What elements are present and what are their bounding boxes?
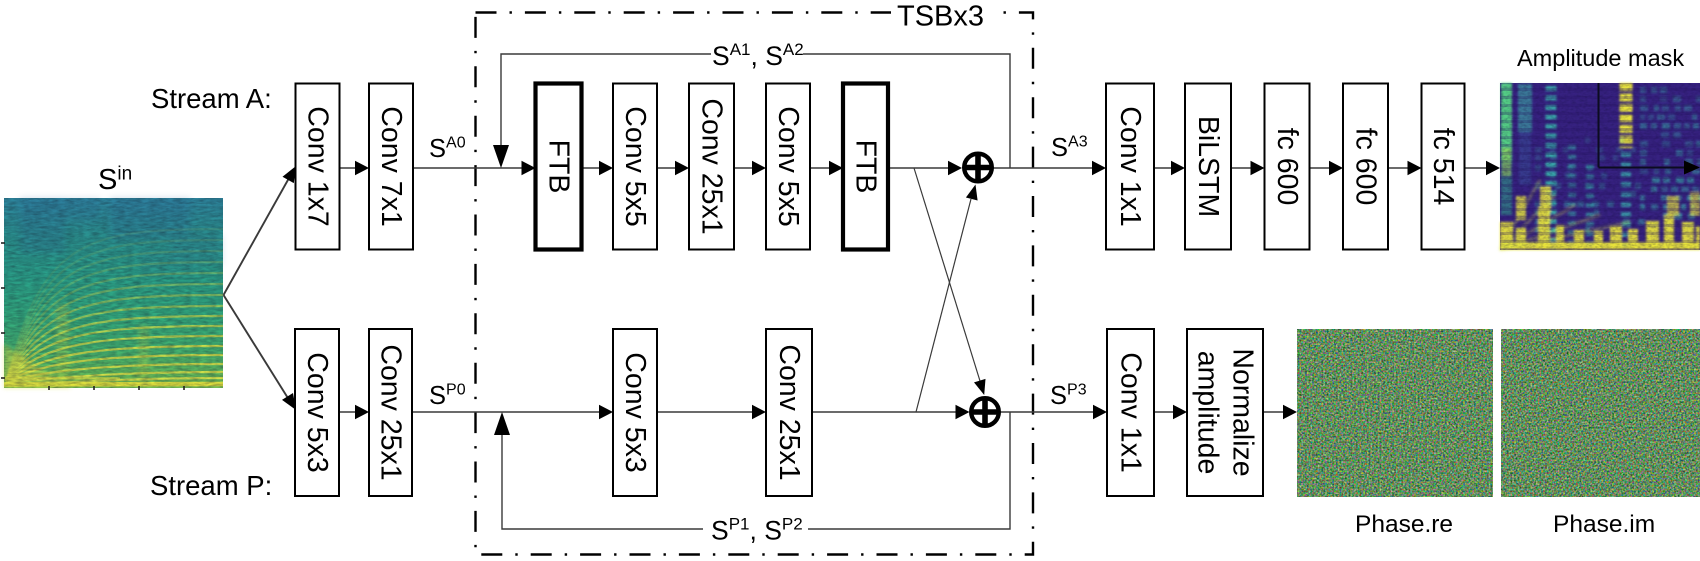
wire FTB2 to adder A [888, 161, 962, 175]
svg-text:Conv 25x1: Conv 25x1 [696, 98, 728, 234]
block FTB [536, 84, 582, 250]
wire Normalize amplitude to Phase.re [1263, 405, 1297, 419]
wire cross-stream P to adder A [916, 185, 978, 413]
svg-text:Sin: Sin [98, 164, 132, 197]
svg-text:Conv 7x1: Conv 7x1 [375, 106, 407, 226]
wire feedback loop S^A1,S^A2 right segment [803, 54, 1010, 168]
svg-text:Conv 1x1: Conv 1x1 [1115, 352, 1147, 472]
block Conv 1x7 [296, 84, 340, 250]
wire adder P to Conv1x1 (S^P3) [1001, 405, 1108, 419]
block FTB [843, 84, 888, 250]
svg-text:Amplitude mask: Amplitude mask [1517, 45, 1684, 71]
svg-text:FTB: FTB [850, 140, 882, 194]
svg-text:BiLSTM: BiLSTM [1192, 116, 1224, 217]
svg-text:SP0: SP0 [429, 382, 466, 411]
wire feedback loop S^A1,S^A2 left segment with down arrow [493, 54, 711, 168]
svg-text:Phase.im: Phase.im [1553, 511, 1655, 538]
wire cross-stream A to adder P [914, 168, 986, 395]
wire fc600 to fc600 [1310, 161, 1344, 175]
block Conv 5x5 [766, 84, 810, 250]
svg-text:Stream P:: Stream P: [150, 470, 272, 501]
TSB dash-dot frame [476, 13, 1034, 555]
wire Conv25x1 to TSB Conv5x3 (S^P0) [412, 405, 613, 419]
svg-text:Conv 25x1: Conv 25x1 [375, 344, 407, 480]
block Normalize amplitude [1187, 329, 1263, 496]
block Conv 1x1 [1107, 329, 1154, 496]
svg-text:Phase.re: Phase.re [1355, 511, 1453, 538]
Phase.re image [1297, 329, 1493, 497]
S^in axis ticks [1, 243, 184, 390]
Phase.im image [1501, 329, 1700, 497]
block Conv 7x1 [369, 84, 413, 250]
wire Conv1x7 to Conv7x1 [340, 161, 370, 175]
block Conv 25x1 [689, 84, 734, 250]
wire Conv5x5 to FTB2 [810, 161, 843, 175]
svg-text:SA1, SA2: SA1, SA2 [712, 40, 804, 71]
input spectrogram S^in [1, 198, 223, 390]
wire fc600 to fc514 [1388, 161, 1422, 175]
block Conv 1x1 [1106, 84, 1154, 250]
circle-plus adder stream P [971, 398, 999, 426]
svg-text:Conv 1x1: Conv 1x1 [1114, 106, 1146, 226]
wire Conv7x1 to FTB1 (S^A0) [413, 161, 536, 175]
svg-text:Conv 5x3: Conv 5x3 [301, 352, 333, 472]
wire fc514 to amplitude mask [1465, 161, 1501, 175]
block Conv 5x3 [295, 329, 339, 496]
wire feedback loop S^P1,S^P2 right segment [808, 412, 1010, 529]
wire Conv1x1 to Normalize amplitude [1154, 405, 1187, 419]
wire feedback loop S^P1,S^P2 left segment with up arrow [494, 412, 703, 529]
arrow on mask inset [1684, 161, 1700, 175]
svg-text:SA3: SA3 [1051, 134, 1088, 163]
svg-text:fc 600: fc 600 [1350, 128, 1382, 206]
wire FTB1 to Conv5x5 [582, 161, 614, 175]
wire TSB Conv5x3 to TSB Conv25x1 [657, 405, 766, 419]
svg-text:SP3: SP3 [1050, 382, 1087, 411]
wire Conv5x5 to Conv25x1 [657, 161, 689, 175]
svg-text:Conv 5x5: Conv 5x5 [619, 106, 651, 226]
block BiLSTM [1185, 84, 1231, 250]
TSBx3 label [891, 0, 991, 27]
block fc 514 [1422, 84, 1465, 250]
wire Conv5x3 to Conv25x1 [339, 405, 369, 419]
svg-text:Conv 5x5: Conv 5x5 [772, 106, 804, 226]
svg-text:Stream A:: Stream A: [151, 83, 272, 114]
svg-text:Conv 5x3: Conv 5x3 [619, 352, 651, 472]
svg-text:Conv 1x7: Conv 1x7 [302, 106, 334, 226]
wire fan from S^in to Conv 5x3 (stream P) [224, 295, 297, 410]
svg-text:FTB: FTB [543, 140, 575, 194]
svg-text:fc 600: fc 600 [1271, 128, 1303, 206]
svg-text:fc 514: fc 514 [1427, 128, 1459, 206]
amplitude mask image [1500, 83, 1700, 250]
svg-text:TSBx3: TSBx3 [897, 1, 984, 33]
wire adder A to Conv1x1 (S^A3) [994, 161, 1107, 175]
wire Conv1x1 to BiLSTM [1154, 161, 1185, 175]
block Conv 25x1 [766, 329, 812, 496]
wire Conv25x1 to Conv5x5 [734, 161, 766, 175]
svg-text:SA0: SA0 [429, 135, 466, 164]
wire BiLSTM to fc600 [1231, 161, 1265, 175]
block Conv 5x5 [613, 84, 657, 250]
block fc 600 [1343, 84, 1388, 250]
circle-plus adder stream A [964, 154, 992, 182]
block fc 600 [1265, 84, 1310, 250]
wire TSB Conv25x1 to adder P [812, 405, 970, 419]
svg-text:Normalize: Normalize [1227, 348, 1259, 476]
inset zoom rectangle on mask [1599, 83, 1693, 168]
svg-text:Conv 25x1: Conv 25x1 [773, 344, 805, 480]
svg-text:amplitude: amplitude [1192, 351, 1224, 475]
svg-text:SP1, SP2: SP1, SP2 [711, 515, 803, 546]
wire fan from S^in to Conv 1x7 (stream A) [224, 166, 297, 295]
block Conv 25x1 [369, 329, 412, 496]
block Conv 5x3 [613, 329, 657, 496]
